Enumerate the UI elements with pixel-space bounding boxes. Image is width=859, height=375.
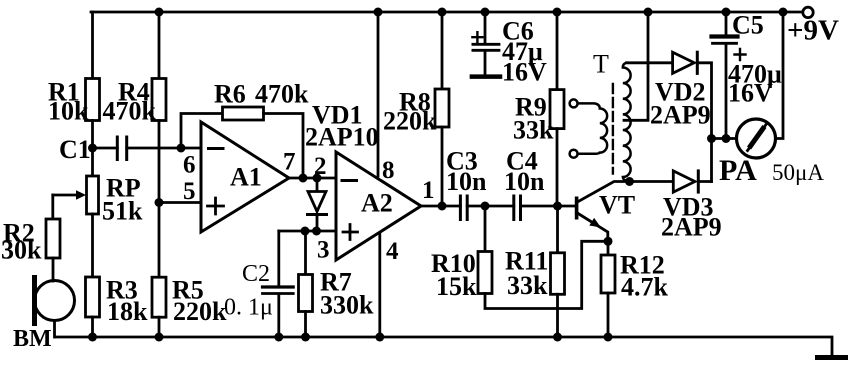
wire VD3 to cathode bus [698, 180, 711, 183]
meter PA circle [737, 119, 776, 158]
svg-text:3: 3 [317, 237, 330, 264]
node dot rail R9 [553, 8, 562, 17]
diode VD1 cathode bar [308, 213, 327, 216]
node dot A2 out [438, 202, 447, 211]
svg-text:10n: 10n [504, 167, 545, 196]
resistor R6 [223, 107, 264, 120]
wire A1 output to A2 pin 2 [289, 177, 336, 180]
svg-text:0. 1μ: 0. 1μ [224, 295, 273, 321]
svg-text:2AP10: 2AP10 [305, 123, 379, 152]
svg-text:4.7k: 4.7k [621, 273, 669, 302]
wire A1 pin 5 input [159, 201, 201, 204]
svg-text:50μA: 50μA [772, 160, 824, 185]
resistor R4 [152, 79, 166, 121]
node dot VD1 bottom [312, 227, 321, 236]
svg-text:33k: 33k [507, 271, 548, 300]
node dot ground R12 [604, 333, 613, 342]
svg-text:2AP9: 2AP9 [661, 213, 722, 242]
wire meter to rail [776, 12, 784, 139]
node dot R6 input [177, 144, 186, 153]
svg-text:PA: PA [719, 154, 757, 187]
transformer T secondary winding [623, 63, 631, 182]
meter PA needle [748, 125, 767, 151]
svg-text:16V: 16V [502, 58, 547, 87]
node dot rail meter [779, 8, 788, 17]
ground symbol [818, 355, 846, 360]
diode VD3 cathode bar [697, 171, 700, 192]
transistor VT emitter arrowhead [589, 218, 601, 228]
svg-text:15k: 15k [436, 272, 477, 301]
wire T center tap to rail [624, 12, 648, 120]
resistor R10 [478, 252, 492, 294]
svg-text:33k: 33k [513, 116, 554, 145]
node dot ground R3 [88, 333, 97, 342]
svg-text:1: 1 [422, 177, 435, 204]
wire top +9V rail [91, 11, 803, 14]
wire RP wiper arm from R2 [53, 194, 77, 197]
node dot ground pin4 [375, 333, 384, 342]
node dot ground R11 [553, 333, 562, 342]
node dot ground R5 [155, 333, 164, 342]
svg-text:A2: A2 [361, 189, 393, 218]
svg-text:470k: 470k [255, 80, 309, 109]
node dot rail R4 [155, 8, 164, 17]
resistor R12 [601, 255, 615, 293]
wire C6 bottom lead [484, 52, 487, 75]
transformer T primary winding [578, 103, 608, 153]
transistor VT base bar [575, 197, 579, 220]
wire VD1 bottom lead [316, 215, 319, 232]
svg-text:10n: 10n [446, 167, 487, 196]
svg-text:C1: C1 [59, 135, 91, 164]
op-amp A2 [336, 152, 421, 260]
node dot C1 left [88, 144, 97, 153]
resistor R8 [435, 89, 449, 127]
transformer T core [612, 84, 614, 174]
wire R1 to C1 node to RP [91, 121, 94, 177]
diode VD1 [308, 192, 326, 212]
wire VD2 to cathode bus [697, 63, 711, 182]
capacitor C6 top lead [484, 12, 487, 43]
wire R7 top lead [304, 231, 307, 275]
capacitor C5 plus sign [735, 49, 746, 60]
wire R10 bottom to VT emitter [485, 241, 603, 308]
ground bar C6 [472, 74, 500, 79]
svg-text:2: 2 [314, 153, 327, 180]
op-amp A2 minus sign [342, 179, 357, 182]
node dot ground R7 [301, 333, 310, 342]
wire R11 top lead [556, 206, 559, 253]
wire T secondary top to VD2 [627, 61, 673, 64]
node dot A1 out [299, 174, 308, 183]
RP wiper arrowhead [76, 190, 86, 199]
svg-text:220k: 220k [383, 107, 437, 136]
node dot cathode bus [707, 134, 716, 143]
capacitor C5 [712, 34, 738, 38]
diode VD2 cathode bar [696, 52, 699, 73]
node dot rail tap [644, 8, 653, 17]
svg-text:C2: C2 [242, 261, 270, 287]
svg-text:18k: 18k [107, 297, 148, 326]
wire left vertical R1 branch [91, 12, 94, 79]
diode VD2 [673, 52, 695, 73]
capacitor C2 [263, 285, 294, 288]
transformer T primary terminal lower [570, 150, 578, 158]
wire R6 left lead [181, 114, 223, 149]
capacitor C2 top lead [277, 231, 280, 286]
node dot rail R8 [438, 8, 447, 17]
potentiometer RP [87, 176, 99, 214]
svg-text:51k: 51k [102, 197, 143, 226]
wire RP bottom to R3 [91, 214, 94, 277]
wire C1 left lead [93, 147, 118, 150]
wire C4 to VT base [521, 205, 575, 208]
svg-text:T: T [593, 50, 609, 79]
capacitor C4 [514, 196, 521, 220]
capacitor C5 top lead [725, 12, 728, 34]
wire R2 to BM [52, 258, 55, 281]
svg-text:330k: 330k [320, 291, 374, 320]
svg-text:470k: 470k [103, 97, 157, 126]
svg-text:C5: C5 [732, 11, 764, 40]
svg-text:R6: R6 [214, 80, 246, 109]
wire R2 top lead [51, 195, 54, 219]
op-amp A1 plus sign [208, 198, 224, 214]
svg-text:4: 4 [386, 238, 399, 265]
wire C3 to C4 [467, 205, 514, 208]
diode VD3 [673, 171, 695, 192]
wire A2 pin 4 to ground rail [378, 233, 381, 337]
node dot C5 bottom [722, 134, 731, 143]
capacitor C6 plus sign [472, 32, 482, 42]
wire VD1 top lead [316, 178, 319, 192]
node dot rail C6 [481, 8, 490, 17]
node dot rail pin8 [374, 8, 383, 17]
transformer T primary terminal upper [570, 99, 578, 107]
svg-text:8: 8 [382, 157, 395, 184]
wire R8 top lead [441, 12, 444, 89]
resistor R5 [152, 277, 166, 317]
wire R12 to ground rail [607, 293, 610, 337]
wire BM to ground rail [53, 321, 56, 338]
wire bottom ground rail [55, 337, 832, 356]
wire cathode bus to meter [712, 137, 737, 140]
resistor R2 [46, 219, 60, 258]
wire R3 to ground rail [91, 317, 94, 337]
capacitor C3 [460, 196, 467, 220]
transistor VT emitter [577, 213, 608, 242]
wire R6 right lead [264, 114, 304, 179]
svg-text:VT: VT [599, 191, 635, 220]
wire R5 to ground rail [158, 317, 161, 337]
svg-text:2AP9: 2AP9 [650, 101, 711, 130]
terminal +9V open circle [803, 7, 813, 17]
svg-text:7: 7 [283, 149, 296, 176]
svg-text:6: 6 [183, 152, 196, 179]
node dot ground C2 [274, 333, 283, 342]
node dot R10 top [481, 202, 490, 211]
svg-text:BM: BM [13, 326, 52, 352]
wire A2 pin 8 supply [377, 12, 380, 176]
wire C1 to A1 pin 6 [127, 147, 201, 150]
node dot rail C5 [722, 8, 731, 17]
wire R10 top lead [484, 206, 487, 252]
wire C2 to A2 pin 3 [279, 230, 336, 233]
resistor R11 [551, 253, 565, 294]
node dot pin5 [155, 198, 164, 207]
wire collector node to VD3 [630, 180, 674, 183]
wire R9 to base node [556, 129, 559, 206]
wire R8 to output node [441, 127, 444, 206]
svg-text:16V: 16V [728, 79, 773, 108]
resistor R9 [550, 90, 564, 129]
svg-text:A1: A1 [230, 163, 262, 192]
resistor R7 [299, 275, 313, 312]
microphone BM circle [35, 281, 75, 321]
wire R4 to node 5 to R5 [158, 121, 161, 278]
resistor R3 [86, 277, 100, 317]
wire R4 top lead [158, 12, 161, 79]
wire R9 top lead [556, 12, 559, 90]
wire C5 to meter node [725, 46, 728, 139]
node dot collector [625, 177, 634, 186]
capacitor C1 [117, 137, 126, 160]
transistor VT collector [577, 182, 630, 203]
wire C2 to ground rail [277, 295, 280, 338]
op-amp A1 minus sign [209, 147, 224, 150]
op-amp A2 plus sign [343, 225, 358, 240]
node dot VD1 top [313, 174, 322, 183]
svg-text:+9V: +9V [787, 15, 839, 47]
wire R11 to ground rail [556, 294, 559, 337]
wire A2 output pin 1 [421, 205, 460, 208]
node dot R7 top [301, 227, 310, 236]
svg-text:30k: 30k [1, 236, 42, 265]
node dot base [553, 202, 562, 211]
op-amp A1 [201, 122, 289, 232]
wire R12 top lead [607, 241, 610, 255]
wire R7 to ground rail [304, 312, 307, 338]
svg-text:220k: 220k [173, 297, 227, 326]
svg-text:10k: 10k [48, 97, 89, 126]
svg-text:5: 5 [183, 178, 196, 205]
resistor R1 [86, 79, 100, 121]
capacitor C6 [473, 44, 499, 50]
microphone BM side bar [32, 278, 37, 324]
node dot emitter [604, 237, 613, 246]
